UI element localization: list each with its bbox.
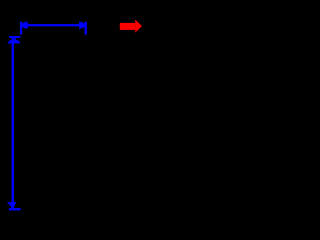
arrow head	[135, 20, 142, 33]
arrow body	[120, 23, 136, 30]
up arrowhead	[8, 38, 20, 43]
left arrowhead	[22, 21, 28, 29]
left extension tick	[20, 22, 22, 35]
right arrowhead	[79, 21, 85, 29]
dimension line stem	[12, 38, 14, 208]
horizontal dimension line (width measure)	[20, 21, 87, 34]
down arrowhead	[8, 202, 17, 208]
bottom extension tick	[9, 208, 21, 210]
vertical dimension line (height measure)	[8, 36, 21, 210]
dimension line	[21, 24, 86, 26]
red direction arrow	[120, 20, 142, 33]
top extension tick	[9, 36, 21, 38]
right extension tick	[85, 22, 87, 35]
